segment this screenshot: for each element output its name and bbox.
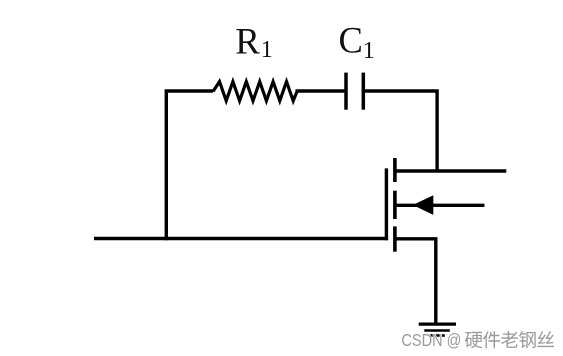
svg-text:C: C — [339, 20, 363, 61]
svg-text:R: R — [235, 22, 260, 63]
svg-text:1: 1 — [261, 37, 273, 63]
svg-text:1: 1 — [363, 38, 375, 64]
svg-text:CSDN @: CSDN @ — [401, 330, 461, 350]
